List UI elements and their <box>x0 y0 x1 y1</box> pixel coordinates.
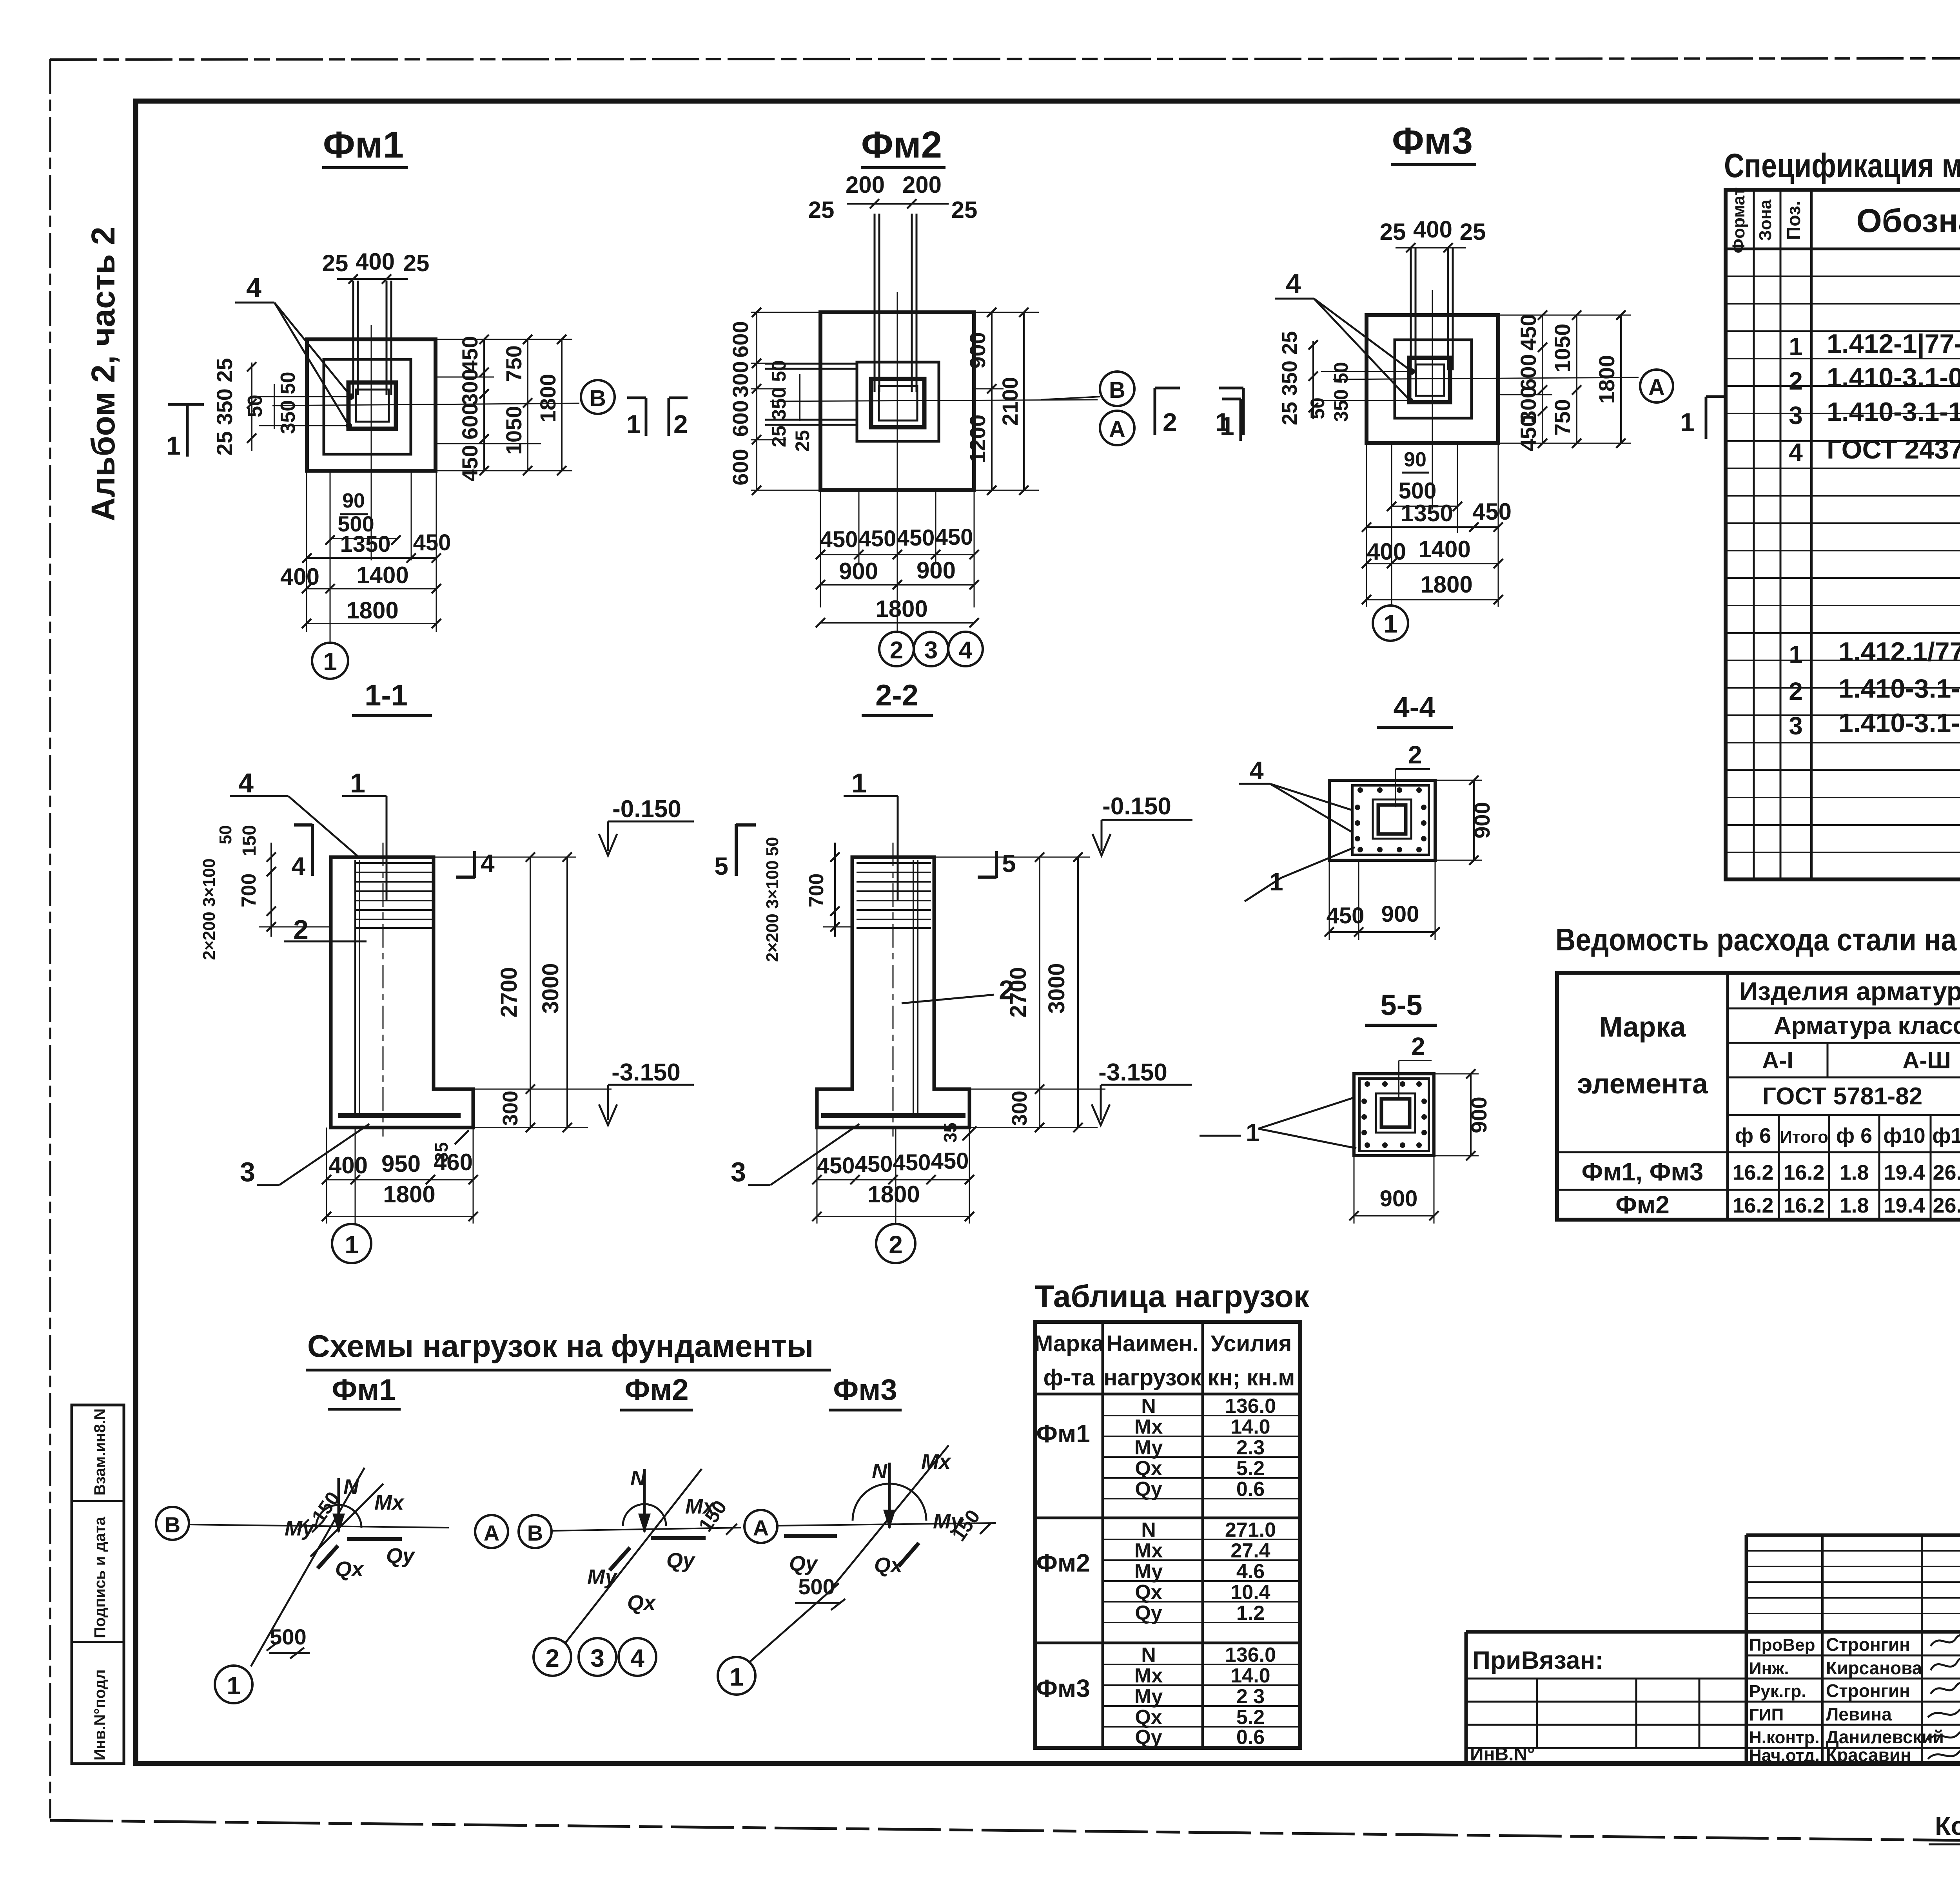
svg-text:600: 600 <box>1516 354 1541 390</box>
svg-text:25: 25 <box>951 197 978 223</box>
pedestal inner square <box>1395 340 1472 418</box>
svg-text:Марка: Марка <box>1034 1331 1104 1356</box>
column square <box>871 379 924 427</box>
svg-text:1: 1 <box>730 1663 744 1691</box>
svg-text:460: 460 <box>434 1149 473 1175</box>
axis circles B A <box>1100 372 1134 406</box>
stirrup hatch <box>355 863 432 928</box>
bottom dim row 900 900 <box>820 584 974 586</box>
svg-text:2: 2 <box>1408 741 1422 769</box>
svg-text:600: 600 <box>457 403 482 439</box>
dim 3000 <box>1077 857 1079 1128</box>
scheme FM3 axis circle 1 <box>718 1657 755 1695</box>
bottom dim row 400 1400 <box>1367 563 1498 564</box>
svg-text:3: 3 <box>1789 401 1803 430</box>
svg-text:В: В <box>1109 377 1125 403</box>
right chain 2100 <box>1023 312 1025 490</box>
svg-text:1.8: 1.8 <box>1839 1161 1869 1184</box>
scheme FM1 axis line <box>189 1525 449 1528</box>
svg-text:50: 50 <box>763 837 782 856</box>
svg-text:Фм2: Фм2 <box>1615 1191 1670 1219</box>
outer border bottom <box>50 1820 1960 1847</box>
G5 spec table <box>1724 147 1960 879</box>
svg-text:В: В <box>590 386 606 411</box>
svg-text:N: N <box>1141 1395 1156 1418</box>
scheme FM2 Qy <box>651 1536 706 1540</box>
svg-text:Qу: Qу <box>666 1549 696 1572</box>
svg-text:1400: 1400 <box>1418 536 1470 562</box>
svg-text:5.2: 5.2 <box>1236 1457 1265 1480</box>
svg-text:2×200 3×100: 2×200 3×100 <box>200 858 219 960</box>
svg-text:35: 35 <box>940 1122 960 1142</box>
svg-text:Qх: Qх <box>627 1591 656 1615</box>
svg-text:Инв.N°подл: Инв.N°подл <box>91 1670 109 1760</box>
svg-text:5.2: 5.2 <box>1236 1706 1265 1729</box>
svg-text:Ведомость расхода стали на оди: Ведомость расхода стали на один элемент,… <box>1555 922 1960 957</box>
svg-text:1: 1 <box>345 1231 359 1259</box>
svg-text:Мх: Мх <box>374 1491 405 1514</box>
bottom dim row 400 1400 <box>307 588 436 589</box>
svg-text:-3.150: -3.150 <box>612 1059 681 1086</box>
svg-text:2: 2 <box>1163 408 1177 437</box>
spec header bottom <box>1726 248 1960 250</box>
axis circle 1 <box>312 643 348 679</box>
scheme FM1 Qy <box>347 1537 402 1541</box>
svg-text:1.410-3.1-01: 1.410-3.1-01 <box>1838 674 1960 703</box>
svg-text:2700: 2700 <box>496 967 522 1017</box>
dim 3000 <box>566 857 568 1128</box>
svg-text:А-Ш: А-Ш <box>1902 1047 1951 1073</box>
svg-text:1: 1 <box>1789 640 1803 669</box>
svg-text:Qу: Qу <box>789 1552 818 1575</box>
dim 2700 <box>530 857 531 1128</box>
svg-text:Фм3: Фм3 <box>1036 1674 1090 1702</box>
svg-text:N: N <box>343 1475 359 1499</box>
anchor plate square <box>1416 364 1444 396</box>
svg-text:5: 5 <box>714 852 728 880</box>
svg-text:3: 3 <box>590 1644 604 1672</box>
svg-text:1: 1 <box>323 647 337 676</box>
signatures <box>1931 1633 1960 1646</box>
extension horizontals left <box>751 312 820 313</box>
svg-text:Фм1: Фм1 <box>323 124 404 166</box>
scheme FM2 Mx line <box>564 1469 702 1644</box>
right extensions <box>974 312 1039 313</box>
left sidebar table <box>72 1405 124 1764</box>
left block verticals <box>1536 1679 1538 1748</box>
svg-text:1: 1 <box>1246 1118 1260 1147</box>
svg-text:450: 450 <box>817 1153 855 1178</box>
anchor plate square <box>879 386 917 421</box>
svg-text:1050: 1050 <box>1550 324 1575 373</box>
extension verticals <box>820 490 821 607</box>
spec vertical lines <box>1753 190 1755 879</box>
svg-text:2 3: 2 3 <box>1236 1685 1265 1708</box>
svg-text:1: 1 <box>166 431 181 460</box>
column square <box>348 383 396 429</box>
right dim chain 3 <box>561 339 563 471</box>
svg-text:90: 90 <box>1404 448 1426 471</box>
svg-text:1.2: 1.2 <box>1236 1602 1265 1624</box>
svg-text:Взам.ин8.N: Взам.ин8.N <box>91 1409 109 1496</box>
svg-text:136.0: 136.0 <box>1225 1644 1276 1666</box>
row lines block 1 <box>1103 1416 1300 1499</box>
svg-text:4: 4 <box>238 768 254 798</box>
dim 2700 <box>1039 857 1040 1128</box>
svg-text:Му: Му <box>1134 1685 1163 1708</box>
svg-text:1: 1 <box>1680 408 1695 437</box>
section marks 2 and 1 right of plan <box>1154 388 1156 435</box>
svg-text:1050: 1050 <box>501 406 526 455</box>
svg-text:450: 450 <box>1516 314 1541 350</box>
stamp top edge <box>1746 1534 1960 1537</box>
svg-text:ф-та: ф-та <box>1044 1365 1095 1390</box>
axis circle A <box>1640 370 1673 402</box>
scheme FM3 Qy <box>784 1534 837 1538</box>
svg-text:1: 1 <box>626 410 641 439</box>
svg-text:Н.контр.: Н.контр. <box>1749 1728 1820 1747</box>
svg-text:25: 25 <box>791 430 813 452</box>
svg-text:Qх: Qх <box>1135 1581 1162 1604</box>
svg-text:750: 750 <box>1550 399 1575 435</box>
svg-text:450: 450 <box>935 524 973 550</box>
outer border left <box>49 59 51 1818</box>
svg-text:2: 2 <box>889 1231 903 1259</box>
svg-text:Рук.гр.: Рук.гр. <box>1749 1682 1806 1701</box>
svg-text:ПриВязан:: ПриВязан: <box>1472 1646 1604 1674</box>
svg-text:900: 900 <box>965 332 990 368</box>
svg-text:19.4: 19.4 <box>1884 1194 1925 1217</box>
scheme FM2 Qx <box>610 1548 630 1570</box>
svg-text:ф12: ф12 <box>1932 1124 1960 1148</box>
svg-text:Марка: Марка <box>1599 1012 1686 1043</box>
svg-text:0.6: 0.6 <box>1236 1726 1265 1749</box>
svg-text:Нач.отд.: Нач.отд. <box>1749 1746 1820 1765</box>
svg-text:300: 300 <box>1008 1091 1031 1126</box>
svg-text:600: 600 <box>728 449 753 485</box>
right dim 900 <box>1470 1074 1472 1156</box>
axis circle 1 <box>1373 605 1408 641</box>
svg-text:1: 1 <box>227 1671 241 1700</box>
svg-text:400: 400 <box>356 248 395 275</box>
G9 steel table <box>1555 922 1960 1220</box>
pedestal inner square <box>324 359 411 454</box>
svg-text:2: 2 <box>890 637 903 664</box>
svg-text:400: 400 <box>280 564 319 590</box>
svg-text:Мх: Мх <box>1134 1539 1163 1562</box>
anchor plate square <box>356 390 389 422</box>
svg-text:450: 450 <box>457 445 482 481</box>
small table rows <box>1746 1551 1960 1613</box>
svg-text:Фм3: Фм3 <box>833 1373 897 1407</box>
row lines block 2 <box>1103 1539 1300 1622</box>
loads table frame <box>1035 1322 1300 1748</box>
svg-text:Qу: Qу <box>1135 1478 1162 1501</box>
vertical rebar <box>354 860 356 1117</box>
rebar dots <box>1361 1081 1427 1148</box>
svg-text:1800: 1800 <box>1420 571 1472 598</box>
svg-text:Изделия арматурные: Изделия арматурные <box>1739 977 1960 1006</box>
core square <box>1381 1099 1410 1127</box>
header and block lines <box>1035 1394 1300 1643</box>
svg-text:25 350 50: 25 350 50 <box>768 360 790 447</box>
section mark 4 left <box>311 824 314 876</box>
svg-text:1800: 1800 <box>875 596 927 622</box>
scheme FM2 axis circles 2 3 4 <box>534 1638 571 1676</box>
svg-text:1800: 1800 <box>535 374 560 423</box>
svg-text:Му: Му <box>933 1510 964 1533</box>
svg-text:700: 700 <box>805 874 828 908</box>
right dim chain 1 <box>1542 315 1543 443</box>
G8 sections 4-4 5-5 <box>1200 691 1494 1224</box>
svg-text:Стронгин: Стронгин <box>1826 1634 1910 1655</box>
scheme FM1 long diagonal <box>251 1468 365 1666</box>
stamp main horizontal <box>1466 1630 1960 1634</box>
svg-text:1: 1 <box>1789 332 1803 361</box>
svg-text:2: 2 <box>1411 1032 1425 1060</box>
svg-text:1-1: 1-1 <box>365 679 408 712</box>
svg-text:1800: 1800 <box>867 1181 920 1207</box>
svg-text:3: 3 <box>1789 712 1803 740</box>
verticals <box>1726 973 1729 1220</box>
svg-text:Му: Му <box>1134 1560 1163 1583</box>
svg-text:10.4: 10.4 <box>1230 1581 1270 1604</box>
svg-text:ИнВ.N°: ИнВ.N° <box>1470 1744 1535 1765</box>
scheme FM3 leader diagonal <box>750 1583 839 1662</box>
section marks 1 2 between plans <box>645 398 648 436</box>
svg-text:4: 4 <box>959 637 973 664</box>
outer rect <box>1354 1074 1434 1156</box>
svg-text:1800: 1800 <box>383 1181 435 1207</box>
svg-text:ГОСТ 24379.1-80: ГОСТ 24379.1-80 <box>1827 435 1960 464</box>
svg-text:Левина: Левина <box>1826 1704 1892 1724</box>
svg-text:19.4: 19.4 <box>1884 1161 1925 1184</box>
extension lines right <box>473 1089 612 1090</box>
centerline <box>893 843 894 1137</box>
bottom dim row 1800 <box>307 623 436 624</box>
svg-text:-0.150: -0.150 <box>612 796 681 823</box>
scheme FM2 axis circles A B <box>475 1515 508 1548</box>
svg-text:300: 300 <box>457 369 482 405</box>
svg-text:450: 450 <box>893 1150 931 1175</box>
svg-text:4: 4 <box>1250 756 1264 785</box>
svg-text:50: 50 <box>216 825 235 845</box>
svg-text:Таблица нагрузок: Таблица нагрузок <box>1035 1279 1310 1314</box>
svg-text:26.2: 26.2 <box>1933 1161 1960 1184</box>
right chain 900 1200 <box>991 312 993 490</box>
svg-text:Qх: Qх <box>1135 1457 1162 1480</box>
spec row lines <box>1726 276 1960 852</box>
svg-text:Данилевский: Данилевский <box>1826 1727 1944 1747</box>
svg-text:4: 4 <box>246 272 261 303</box>
svg-text:2.3: 2.3 <box>1236 1436 1265 1459</box>
svg-text:1.412.1/77-В.3-020: 1.412.1/77-В.3-020 <box>1838 637 1960 667</box>
svg-text:Копировал: Боброва: Копировал: Боброва <box>1935 1811 1960 1840</box>
anchor bolt lines pairs <box>1410 247 1412 370</box>
svg-text:ф 6: ф 6 <box>1836 1124 1872 1148</box>
anchor bolt lines left pair <box>352 281 354 395</box>
svg-text:-3.150: -3.150 <box>1098 1059 1167 1086</box>
axis circle B <box>581 380 615 414</box>
anchor bolt lines pairs <box>874 214 876 392</box>
svg-text:450: 450 <box>1472 499 1512 525</box>
svg-text:450: 450 <box>457 336 482 372</box>
column square <box>1409 358 1450 402</box>
scheme FM1 force N <box>338 1478 340 1532</box>
axis circle 1 <box>332 1224 371 1263</box>
svg-text:Qу: Qу <box>1135 1602 1162 1624</box>
scheme FM3 axis circle A <box>744 1510 777 1543</box>
svg-text:2-2: 2-2 <box>875 679 918 712</box>
G11 load schemes <box>156 1329 996 1703</box>
svg-text:4: 4 <box>1286 268 1301 299</box>
svg-text:16.2: 16.2 <box>1783 1194 1824 1217</box>
footing outer square <box>307 339 436 471</box>
scheme FM3 axis line <box>777 1523 996 1526</box>
svg-text:Фм3: Фм3 <box>1392 120 1473 162</box>
bottom dim row 1800 <box>1367 599 1498 600</box>
svg-text:Фм2: Фм2 <box>1036 1549 1090 1577</box>
svg-text:А: А <box>1109 417 1125 442</box>
svg-text:4: 4 <box>481 849 495 877</box>
scheme FM2 moment arc <box>623 1504 666 1526</box>
svg-text:2: 2 <box>1789 367 1803 395</box>
svg-text:Qу: Qу <box>1135 1726 1162 1749</box>
svg-text:450: 450 <box>413 530 451 555</box>
svg-text:400: 400 <box>1413 216 1452 243</box>
pedestal inner square <box>857 362 939 441</box>
svg-text:элемента: элемента <box>1577 1068 1708 1100</box>
G2 plan FM1 <box>166 124 615 679</box>
svg-text:300: 300 <box>499 1091 522 1126</box>
svg-text:Фм1: Фм1 <box>1036 1419 1090 1448</box>
svg-text:350 50: 350 50 <box>1330 362 1352 422</box>
extension verticals <box>1366 443 1367 607</box>
svg-text:900: 900 <box>1466 1097 1491 1133</box>
vertical rebar <box>913 860 914 1117</box>
left outer chain <box>756 312 757 490</box>
svg-text:500: 500 <box>798 1574 835 1599</box>
top dim line <box>337 278 408 280</box>
svg-text:Поз.: Поз. <box>1784 201 1804 240</box>
svg-text:350 50: 350 50 <box>277 372 299 434</box>
cage rect <box>1359 1079 1429 1151</box>
centerline vertical <box>371 325 372 560</box>
svg-text:ГИП: ГИП <box>1749 1705 1784 1724</box>
svg-text:14.0: 14.0 <box>1230 1416 1270 1438</box>
G7 section 2-2 <box>714 679 1192 1263</box>
left block outline <box>1465 1632 1468 1764</box>
left rebar stubs <box>765 363 857 365</box>
svg-text:271.0: 271.0 <box>1225 1519 1276 1541</box>
scheme FM1 moment arc <box>316 1505 361 1528</box>
centerline horizontal <box>1333 377 1639 379</box>
svg-text:А: А <box>753 1515 769 1540</box>
centerline horizontal <box>272 403 579 406</box>
svg-text:3: 3 <box>924 637 938 664</box>
svg-text:5-5: 5-5 <box>1381 989 1423 1021</box>
foundation outline <box>817 857 969 1128</box>
core square <box>1378 805 1406 834</box>
svg-text:300: 300 <box>728 361 753 397</box>
svg-text:26.2: 26.2 <box>1933 1194 1960 1217</box>
svg-text:16.2: 16.2 <box>1732 1194 1773 1217</box>
stamp left vertical upper <box>1745 1535 1748 1764</box>
right extensions <box>1498 315 1631 316</box>
svg-text:Наимен.: Наимен. <box>1106 1331 1199 1356</box>
svg-text:3: 3 <box>731 1157 746 1187</box>
scheme FM1 Qx <box>318 1546 338 1568</box>
svg-text:2100: 2100 <box>998 377 1022 426</box>
svg-text:136.0: 136.0 <box>1225 1395 1276 1418</box>
svg-text:25: 25 <box>403 250 430 276</box>
section mark 1 right <box>1705 397 1708 439</box>
scheme FM3 moment arc <box>853 1484 926 1521</box>
centerline <box>383 843 384 1137</box>
svg-text:25: 25 <box>808 197 835 223</box>
svg-text:1200: 1200 <box>965 415 990 464</box>
outer border top <box>50 58 1960 60</box>
extension verticals <box>306 471 307 632</box>
svg-text:400: 400 <box>328 1152 368 1178</box>
svg-text:Альбом 2, часть 2: Альбом 2, часть 2 <box>85 227 122 521</box>
svg-text:2: 2 <box>999 975 1014 1005</box>
svg-text:1.410-3.1-01: 1.410-3.1-01 <box>1827 363 1960 392</box>
rebar dots <box>1355 787 1426 852</box>
section mark 5 left <box>735 824 738 876</box>
svg-text:1: 1 <box>851 768 867 798</box>
svg-text:600: 600 <box>728 321 753 357</box>
svg-text:ф10: ф10 <box>1883 1124 1925 1148</box>
svg-text:Мх: Мх <box>685 1495 715 1518</box>
svg-text:-0.150: -0.150 <box>1102 793 1171 820</box>
svg-text:3000: 3000 <box>538 963 563 1013</box>
svg-text:ПроВер: ПроВер <box>1749 1635 1815 1655</box>
section mark 1 left of plan <box>168 403 204 406</box>
svg-text:3: 3 <box>240 1157 255 1187</box>
svg-text:Подпись и дата: Подпись и дата <box>91 1516 109 1638</box>
cage rect <box>1352 785 1429 855</box>
svg-text:450: 450 <box>855 1151 893 1177</box>
svg-text:900: 900 <box>1380 1186 1418 1211</box>
svg-text:Qх: Qх <box>335 1557 364 1581</box>
svg-text:1800: 1800 <box>346 597 398 624</box>
G3 plan FM2 <box>626 124 1243 666</box>
centerline horizontal <box>770 400 1098 401</box>
svg-text:1: 1 <box>350 768 365 798</box>
svg-text:16.2: 16.2 <box>1732 1161 1773 1184</box>
verticals <box>1102 1322 1104 1748</box>
axis circles 2 3 4 <box>879 632 914 666</box>
svg-text:4.6: 4.6 <box>1236 1560 1265 1583</box>
svg-text:А: А <box>484 1521 499 1545</box>
svg-text:1: 1 <box>1383 610 1397 638</box>
svg-text:Фм1: Фм1 <box>332 1373 396 1407</box>
svg-text:900: 900 <box>1470 802 1494 838</box>
extensions <box>934 857 1090 858</box>
right dim chain 3 <box>1620 315 1622 443</box>
bottom dim row 1350 450 <box>1367 526 1498 528</box>
svg-text:25: 25 <box>322 250 348 276</box>
scheme FM1 axis circle 1 <box>215 1666 252 1703</box>
svg-text:4: 4 <box>630 1644 644 1672</box>
small table verticals <box>1821 1535 1824 1764</box>
scheme FM2 force N <box>643 1469 646 1532</box>
stamp row lines <box>1466 1655 1960 1748</box>
svg-text:Кирсанова: Кирсанова <box>1826 1658 1922 1678</box>
svg-text:ф 6: ф 6 <box>1735 1124 1771 1148</box>
svg-text:Инж.: Инж. <box>1749 1659 1789 1678</box>
